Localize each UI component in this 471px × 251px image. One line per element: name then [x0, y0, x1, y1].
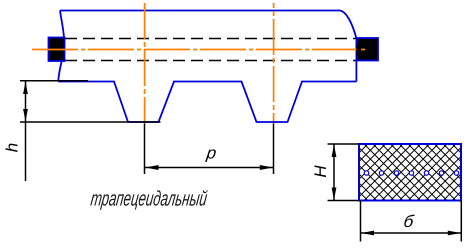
vertical centerline 2 — [273, 3, 275, 124]
dimension p arrow right — [260, 165, 273, 170]
dimension h extension line bottom — [20, 121, 161, 123]
belt cross-section rectangle with crosshatch — [285, 144, 471, 201]
dimension H arrow down — [332, 188, 337, 201]
dimension p extension line right — [273, 124, 275, 175]
hidden shaft line top (dashed) — [65, 38, 356, 40]
dimension b extension line right — [460, 201, 462, 242]
label h — [2, 143, 21, 152]
dimension h arrow down — [23, 109, 28, 122]
vertical centerline 1 — [144, 3, 146, 124]
pulley top edge with rounded right corner — [60, 11, 356, 39]
dimension p arrow left — [145, 165, 158, 170]
dimension h extension line top — [20, 80, 88, 82]
hidden shaft line bottom (dashed) — [65, 60, 356, 62]
label H — [311, 165, 330, 178]
label p — [204, 144, 217, 163]
belt tooth profile — [58, 82, 356, 123]
label b — [402, 212, 416, 231]
svg-text:H: H — [311, 165, 330, 178]
svg-text:h: h — [2, 143, 21, 152]
svg-text:трапецеидальный: трапецеидальный — [89, 188, 208, 211]
right shaft edge tick — [356, 45, 358, 56]
dimension b arrow left — [361, 231, 374, 236]
dimension h line — [25, 81, 27, 181]
break line (wavy left edge of pulley) — [58, 11, 64, 82]
dimension b extension line left — [360, 201, 362, 242]
dimension b line — [361, 232, 462, 234]
svg-text:б: б — [402, 212, 416, 231]
dimension p extension line left — [144, 124, 146, 175]
dimension H line — [333, 144, 335, 201]
dimension h arrow up — [23, 82, 28, 95]
horizontal centerline — [32, 49, 368, 51]
dimension p line — [145, 167, 274, 169]
svg-text:р: р — [204, 144, 217, 163]
pulley right edge — [355, 38, 357, 82]
dimension H extension line top — [328, 143, 360, 145]
dimension b arrow right — [448, 231, 461, 236]
right shaft end (black block) — [357, 38, 379, 61]
left shaft end (black block) — [49, 38, 65, 62]
cord circles in cross-section — [364, 171, 458, 175]
dimension H arrow up — [332, 145, 337, 158]
dimension H extension line bottom — [328, 200, 360, 202]
caption trapezoidal — [89, 188, 208, 211]
